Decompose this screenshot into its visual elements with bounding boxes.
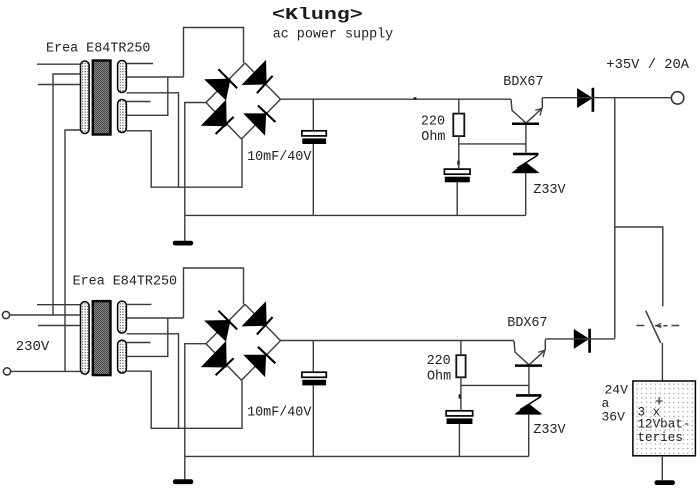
svg-text:teries: teries (638, 431, 683, 445)
svg-text:Z33V: Z33V (533, 423, 565, 438)
svg-text:220: 220 (427, 354, 451, 369)
svg-text:Erea E84TR250: Erea E84TR250 (73, 274, 177, 289)
svg-text:Ohm: Ohm (427, 369, 451, 384)
svg-text:Ohm: Ohm (421, 130, 445, 145)
svg-text:36V: 36V (602, 410, 626, 425)
svg-text:10mF/40V: 10mF/40V (247, 406, 311, 421)
svg-text:BDX67: BDX67 (507, 316, 547, 331)
svg-text:Erea E84TR250: Erea E84TR250 (46, 41, 150, 56)
svg-text:+: + (655, 395, 664, 411)
svg-text:12Vbat-: 12Vbat- (638, 418, 691, 432)
svg-text:ac power supply: ac power supply (273, 27, 394, 42)
svg-text:10mF/40V: 10mF/40V (247, 150, 311, 165)
svg-text:230V: 230V (16, 339, 50, 355)
svg-text:Z33V: Z33V (533, 183, 565, 198)
svg-text:<Klung>: <Klung> (272, 5, 363, 24)
svg-text:+35V / 20A: +35V / 20A (606, 57, 690, 73)
svg-text:BDX67: BDX67 (503, 75, 543, 90)
svg-text:220: 220 (421, 115, 445, 130)
